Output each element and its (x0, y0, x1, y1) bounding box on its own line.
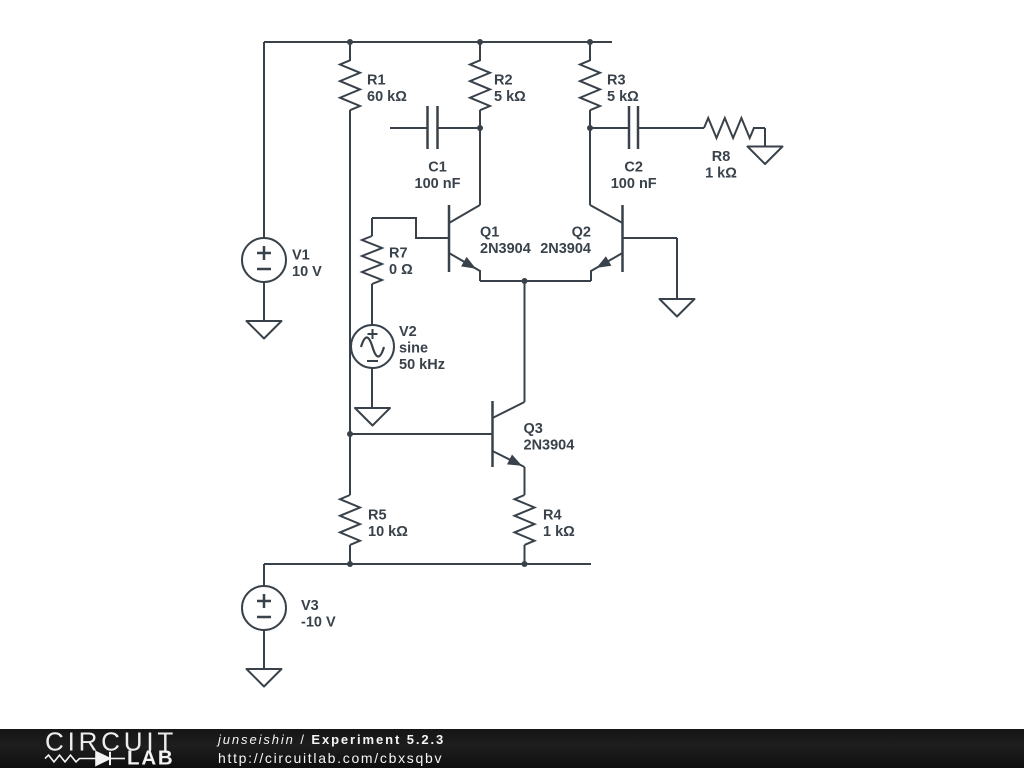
resistor R8 (704, 118, 754, 138)
svg-text:5 kΩ: 5 kΩ (607, 89, 639, 105)
capacitor C1 (390, 106, 480, 149)
resistor R2 (470, 60, 490, 110)
wire Q2 emitter to tail node (525, 280, 592, 282)
svg-text:5 kΩ: 5 kΩ (494, 89, 526, 105)
wire Q2 base (623, 237, 677, 239)
ground near Q2 (660, 299, 695, 317)
resistor R3 (580, 60, 600, 110)
voltage source V1 (242, 238, 286, 282)
footer bar (0, 729, 1024, 768)
transistor Q1 (449, 205, 480, 281)
wire R1 to node A (349, 110, 351, 434)
wire V1 stem (263, 42, 265, 238)
svg-text:R1: R1 (367, 73, 386, 89)
node R5 bottom rail (347, 561, 353, 567)
svg-text:Q1: Q1 (480, 225, 499, 241)
svg-text:-10 V: -10 V (301, 615, 336, 631)
wire Q1 emitter to tail node (480, 280, 525, 282)
svg-text:50 kHz: 50 kHz (399, 357, 445, 373)
wire R3 top stub (589, 42, 591, 61)
svg-text:R8: R8 (712, 149, 731, 165)
transistor Q2 (590, 205, 623, 281)
ground near V2 (355, 408, 390, 426)
svg-text:http://circuitlab.com/cbxsqbv: http://circuitlab.com/cbxsqbv (218, 750, 443, 766)
node top rail R2 (477, 39, 483, 45)
wire R4 to bottom rail (524, 545, 526, 564)
wire R1 top stub (349, 42, 351, 61)
svg-text:LAB: LAB (127, 746, 175, 768)
node emitter tail (522, 278, 528, 284)
capacitor C2 (590, 106, 704, 149)
wire top rail (264, 41, 612, 43)
ground near V1 (247, 321, 282, 339)
svg-text:R2: R2 (494, 73, 513, 89)
svg-text:Q2: Q2 (572, 225, 591, 241)
node top rail R3 (587, 39, 593, 45)
wire R5 to bottom rail (349, 545, 351, 564)
svg-text:1 kΩ: 1 kΩ (705, 166, 737, 182)
wire C2 node to Q2 collector (589, 128, 591, 205)
wire bottom rail (264, 563, 591, 565)
svg-text:V2: V2 (399, 324, 417, 340)
svg-text:10 V: 10 V (292, 264, 322, 280)
svg-text:junseishin / Experiment 5.2.3: junseishin / Experiment 5.2.3 (216, 732, 445, 747)
ground near V3 (247, 669, 282, 687)
wire V1 to ground (263, 282, 265, 321)
voltage source V2 (351, 325, 394, 368)
wire R2 top stub (479, 42, 481, 61)
svg-text:100 nF: 100 nF (611, 176, 657, 192)
svg-text:10 kΩ: 10 kΩ (368, 524, 408, 540)
wire V2 to ground (371, 368, 373, 408)
wire R8 right stub (753, 127, 765, 129)
wire Q3 emitter to R4 (524, 467, 526, 495)
wire rail to V3 (263, 564, 265, 586)
svg-text:60 kΩ: 60 kΩ (367, 89, 407, 105)
wire tail node to Q3 collector (524, 281, 526, 402)
node R4 bottom rail (522, 561, 528, 567)
node A Q3 base (347, 431, 353, 437)
wire node A to R5 (349, 434, 351, 495)
wire V3 to ground (263, 630, 265, 669)
wire C1 node to Q1 collector (479, 128, 481, 205)
wire R7 to V2 (371, 284, 373, 325)
wire R2 to C1 node (479, 110, 481, 128)
wire R3 to C2 node (589, 110, 591, 128)
svg-text:C2: C2 (624, 160, 643, 176)
voltage source V3 (242, 586, 286, 630)
svg-text:0 Ω: 0 Ω (389, 262, 413, 278)
svg-text:100 nF: 100 nF (415, 176, 461, 192)
transistor Q3 (493, 401, 525, 467)
svg-text:1 kΩ: 1 kΩ (543, 524, 575, 540)
logo resistor-diode glyph (45, 752, 125, 765)
resistor R7 (362, 236, 382, 284)
wire Q1 base from R7 (372, 218, 448, 238)
node top rail R1 (347, 39, 353, 45)
ground near R8 (748, 147, 783, 165)
node C1 R2 (477, 125, 483, 131)
wire Q2 base to ground (676, 238, 678, 299)
svg-text:2N3904: 2N3904 (524, 438, 575, 454)
wire R7 top stub (371, 218, 373, 236)
svg-text:R5: R5 (368, 508, 387, 524)
svg-text:sine: sine (399, 341, 428, 357)
svg-text:R7: R7 (389, 246, 408, 262)
svg-text:Q3: Q3 (524, 421, 543, 437)
node C2 R3 (587, 125, 593, 131)
svg-text:V3: V3 (301, 598, 319, 614)
svg-text:R3: R3 (607, 73, 626, 89)
resistor R1 (340, 60, 360, 110)
svg-text:C1: C1 (428, 160, 447, 176)
svg-text:V1: V1 (292, 248, 310, 264)
svg-text:R4: R4 (543, 508, 562, 524)
svg-text:2N3904: 2N3904 (480, 241, 531, 257)
svg-text:2N3904: 2N3904 (540, 241, 591, 257)
wire R8 to ground (764, 128, 766, 147)
resistor R4 (515, 495, 535, 545)
wire Q3 base (350, 433, 492, 435)
resistor R5 (340, 495, 360, 545)
